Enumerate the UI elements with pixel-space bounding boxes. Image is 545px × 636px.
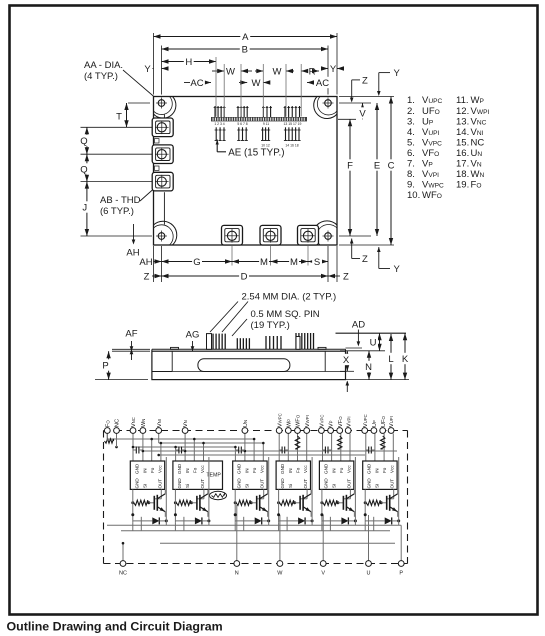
svg-text:Si: Si (375, 484, 380, 488)
svg-text:Vcc: Vcc (157, 465, 162, 473)
svg-text:5.: 5. (407, 137, 415, 148)
svg-text:AC: AC (316, 78, 329, 89)
svg-text:GND: GND (367, 463, 372, 474)
svg-text:W: W (273, 66, 282, 77)
svg-text:Si: Si (245, 484, 250, 488)
svg-text:H: H (185, 57, 192, 68)
svg-text:14 16 18: 14 16 18 (285, 143, 298, 147)
svg-text:AC: AC (190, 78, 203, 89)
svg-text:6.: 6. (407, 148, 415, 159)
svg-text:G: G (193, 257, 200, 268)
svg-text:Vcc: Vcc (303, 465, 308, 473)
svg-text:Q: Q (80, 136, 87, 147)
svg-text:AH: AH (126, 248, 139, 259)
svg-text:GND: GND (323, 463, 328, 474)
svg-text:0.5 MM SQ. PIN: 0.5 MM SQ. PIN (251, 309, 320, 320)
svg-text:Y: Y (394, 68, 401, 79)
svg-text:M: M (260, 257, 268, 268)
svg-text:(19 TYP.): (19 TYP.) (251, 320, 290, 331)
svg-text:GND: GND (237, 463, 242, 474)
svg-text:Fo: Fo (252, 467, 257, 473)
svg-text:GND: GND (177, 463, 182, 474)
svg-text:IN: IN (331, 468, 336, 473)
svg-text:Y: Y (394, 264, 401, 275)
svg-text:Fo: Fo (150, 467, 155, 473)
svg-text:IN: IN (245, 468, 250, 473)
svg-text:Z: Z (362, 76, 368, 87)
svg-text:11.: 11. (456, 95, 469, 106)
svg-text:X: X (343, 355, 350, 366)
svg-text:13.: 13. (456, 116, 469, 127)
svg-text:U: U (367, 571, 371, 577)
svg-text:OUT: OUT (200, 479, 205, 489)
svg-text:15.: 15. (456, 137, 469, 148)
svg-text:Fo: Fo (296, 467, 301, 473)
svg-text:IN: IN (185, 468, 190, 473)
svg-text:W: W (277, 571, 283, 577)
svg-text:AH: AH (139, 257, 152, 268)
svg-text:W: W (252, 78, 261, 89)
svg-text:GND: GND (134, 478, 139, 489)
svg-text:Z: Z (362, 254, 368, 265)
svg-text:GND: GND (177, 478, 182, 489)
svg-text:P: P (399, 571, 403, 577)
svg-text:B: B (242, 44, 248, 55)
svg-text:E: E (374, 160, 380, 171)
svg-text:4.: 4. (407, 127, 415, 138)
svg-text:F: F (347, 160, 353, 171)
svg-text:Si: Si (142, 484, 147, 488)
svg-text:9.: 9. (407, 180, 415, 191)
svg-text:GND: GND (280, 463, 285, 474)
svg-text:AG: AG (186, 330, 200, 341)
svg-text:9 11: 9 11 (263, 122, 269, 126)
svg-text:(4 TYP.): (4 TYP.) (84, 71, 118, 82)
svg-text:Fo: Fo (339, 467, 344, 473)
svg-text:2.: 2. (407, 106, 415, 117)
svg-text:GND: GND (134, 463, 139, 474)
svg-text:19.: 19. (456, 180, 469, 191)
svg-text:N: N (235, 571, 239, 577)
svg-text:V: V (359, 108, 366, 119)
svg-text:Y: Y (330, 64, 337, 75)
svg-text:7.: 7. (407, 159, 415, 170)
svg-text:AD: AD (352, 320, 365, 331)
svg-text:Fo: Fo (382, 467, 387, 473)
svg-text:Z: Z (144, 272, 150, 283)
svg-text:OUT: OUT (346, 479, 351, 489)
svg-text:3.: 3. (407, 116, 415, 127)
svg-text:OUT: OUT (157, 479, 162, 489)
svg-text:K: K (402, 354, 409, 365)
svg-text:AA - DIA.: AA - DIA. (84, 60, 123, 71)
svg-text:OUT: OUT (260, 479, 265, 489)
svg-text:Y: Y (144, 64, 151, 75)
svg-text:18.: 18. (456, 169, 469, 180)
svg-text:1 2 3 4: 1 2 3 4 (214, 122, 224, 126)
svg-text:M: M (290, 257, 298, 268)
svg-text:T: T (116, 111, 122, 122)
svg-text:14.: 14. (456, 127, 469, 138)
svg-text:IN: IN (375, 468, 380, 473)
svg-text:NC: NC (119, 571, 127, 577)
svg-text:W: W (226, 66, 235, 77)
svg-text:10.: 10. (407, 190, 420, 201)
svg-text:Q: Q (80, 164, 87, 175)
svg-text:Z: Z (343, 272, 349, 283)
svg-text:C: C (388, 160, 395, 171)
svg-text:Fo: Fo (192, 467, 197, 473)
svg-text:5 6 7 8: 5 6 7 8 (237, 122, 247, 126)
svg-text:IN: IN (142, 468, 147, 473)
svg-text:2.54 MM DIA. (2 TYP.): 2.54 MM DIA. (2 TYP.) (242, 292, 337, 303)
svg-text:Vcc: Vcc (346, 465, 351, 473)
svg-text:GND: GND (237, 478, 242, 489)
svg-text:Vcc: Vcc (200, 465, 205, 473)
svg-text:OUT: OUT (303, 479, 308, 489)
svg-text:GND: GND (323, 478, 328, 489)
svg-text:AF: AF (125, 329, 137, 340)
svg-text:Vcc: Vcc (390, 465, 395, 473)
svg-text:V: V (321, 571, 325, 577)
svg-text:Si: Si (331, 484, 336, 488)
svg-text:AB - THD: AB - THD (100, 195, 141, 206)
svg-text:13 15 17 19: 13 15 17 19 (284, 122, 302, 126)
svg-text:A: A (242, 32, 249, 43)
svg-text:12.: 12. (456, 106, 469, 117)
svg-text:GND: GND (367, 478, 372, 489)
svg-text:J: J (82, 202, 87, 213)
svg-text:IN: IN (288, 468, 293, 473)
svg-text:8.: 8. (407, 169, 415, 180)
svg-text:N: N (365, 362, 372, 373)
svg-text:NC: NC (115, 419, 121, 427)
svg-text:Outline Drawing and Circuit Di: Outline Drawing and Circuit Diagram (7, 620, 223, 634)
svg-text:Si: Si (185, 484, 190, 488)
svg-text:AE (15 TYP.): AE (15 TYP.) (228, 147, 284, 158)
svg-text:Vcc: Vcc (260, 465, 265, 473)
svg-text:Si: Si (288, 484, 293, 488)
svg-text:17.: 17. (456, 159, 469, 170)
svg-text:S: S (314, 257, 320, 268)
svg-text:L: L (388, 354, 393, 365)
svg-text:1.: 1. (407, 95, 415, 106)
svg-text:D: D (241, 271, 248, 282)
svg-text:NC: NC (471, 137, 485, 148)
svg-text:P: P (102, 360, 108, 371)
svg-text:U: U (370, 337, 377, 348)
svg-text:OUT: OUT (390, 479, 395, 489)
svg-text:(6 TYP.): (6 TYP.) (100, 206, 134, 217)
svg-text:GND: GND (280, 478, 285, 489)
svg-text:16.: 16. (456, 148, 469, 159)
